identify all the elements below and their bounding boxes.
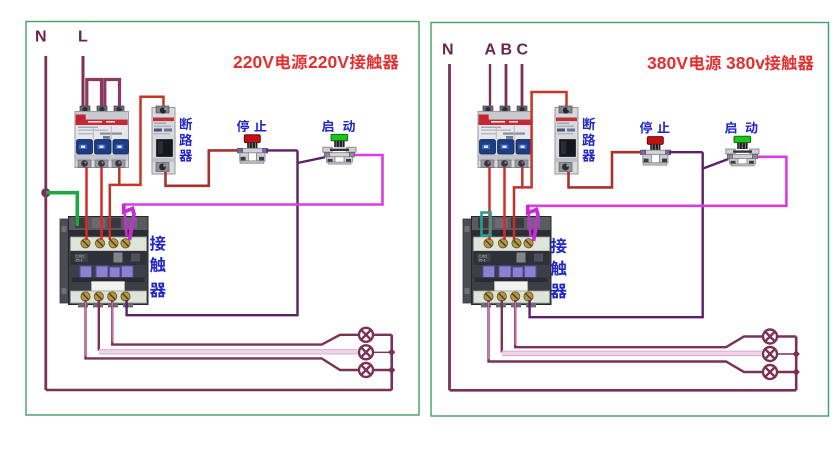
svg-text:380V: 380V [647,53,688,73]
svg-text:C: C [517,42,529,59]
wire stop to seal node [266,149,298,151]
wire lamp5 to bus [777,353,796,355]
svg-text:220V: 220V [233,52,274,72]
lamp EL4 [763,330,777,344]
wire start2 to coil (magenta) [528,157,786,206]
wire load1 pink tint 2 [488,302,490,359]
label 启动 2 [725,121,736,133]
wire load2 pale run [98,300,100,351]
wire C drop [521,64,524,110]
terminal marker teal [482,213,491,236]
lamp EL3 [359,363,373,377]
wire load3 from contactor [112,300,359,345]
label 停止 2 [640,121,652,133]
svg-text:220V: 220V [308,52,349,72]
wire load3 from contactor 2 [515,300,763,347]
label 停止 [237,120,249,132]
lamp EL2 [359,345,373,359]
wire N2 vertical [448,64,451,390]
wire t3 to 1P breaker top [119,97,163,185]
wire seal branch down to aux 2 [530,152,703,317]
wire 1P2 bottom to stop button [569,152,643,187]
svg-text:380v: 380v [726,53,765,73]
wire MCB t3 step to contactor [110,167,120,240]
node bus2 lamp6 [793,368,800,376]
breaker QF3 (3P MCB) [478,106,532,168]
wire L drop [82,56,85,111]
wire load1 from contactor [86,300,360,370]
breaker QF2 (1P) [152,106,175,174]
svg-text:N: N [35,29,47,46]
wire jumper loop 1 [87,80,102,112]
wire A drop [489,64,491,110]
wire lamp1 to bus [373,334,392,336]
breaker QF4 (1P) [555,106,578,174]
wire load1 pink tint [85,302,87,356]
contactor KM1 [60,217,148,308]
wire lamp2 to bus [373,351,392,353]
wire N bottom run [46,389,392,392]
wire MCB2 t2 to contactor [503,167,506,240]
contactor KM2 [463,217,551,308]
wire load3 pink tint [111,302,113,342]
wire coil hook [124,204,134,241]
label 断路器 2 [583,117,595,130]
wire coil hook 2 [528,205,538,241]
wire diagonal to start [298,157,326,163]
lamp EL1 [359,328,373,342]
wire MCB t2 to contactor [100,167,103,240]
wire seal branch down to aux [127,150,298,315]
wire lamp bus 2 [795,337,798,391]
wire lamp6 to bus [777,371,796,373]
wire lamp3 to bus [373,369,392,371]
wire N vertical [44,56,47,390]
node bus lamp3 [388,366,395,374]
wire stop2 to seal node [669,151,703,153]
node bus2 lamp5 [793,350,800,358]
pushbutton SB3 stop [641,137,671,166]
node bus lamp2 [388,348,395,356]
wire t3 to 1P breaker 2 top [522,92,566,187]
wire MCB2 t3 step to contactor [514,167,522,240]
svg-text:L: L [78,29,88,46]
label 断路器 [180,117,192,130]
wire load2 pale run 2 [501,300,503,353]
wire start to coil (magenta) [124,155,383,205]
wire N2 bottom run [450,389,797,392]
pushbutton SB2 start [323,134,356,164]
wire load1 from contactor 2 [489,300,764,372]
label 接触器 [150,235,166,251]
wire B drop [505,64,508,110]
wire MCB t1 to contactor [85,167,88,240]
wire diagonal to start 2 [703,159,729,169]
wire 1P bottom to stop button [166,150,240,185]
label 启动 [322,120,333,132]
svg-text:N: N [442,42,454,59]
pushbutton SB1 stop [238,135,268,164]
wire coil green from N [46,193,78,226]
wire jumper loop 2 [105,80,120,112]
wire lamp bus [390,335,393,390]
node junction N/coil [41,188,50,197]
breaker QF1 (3P MCB) [75,106,129,168]
lamp EL6 [763,365,777,379]
svg-text:A: A [485,42,497,59]
wire lamp4 to bus [777,335,796,337]
lamp EL5 [763,347,777,361]
svg-text:B: B [501,42,513,59]
wire load3 pink tint 2 [514,302,516,345]
right panel frame [431,23,829,417]
wire MCB2 t1 to contactor [488,167,491,240]
label 接触器 2 [551,238,567,254]
pushbutton SB4 start [726,136,759,166]
left panel frame [26,22,419,416]
